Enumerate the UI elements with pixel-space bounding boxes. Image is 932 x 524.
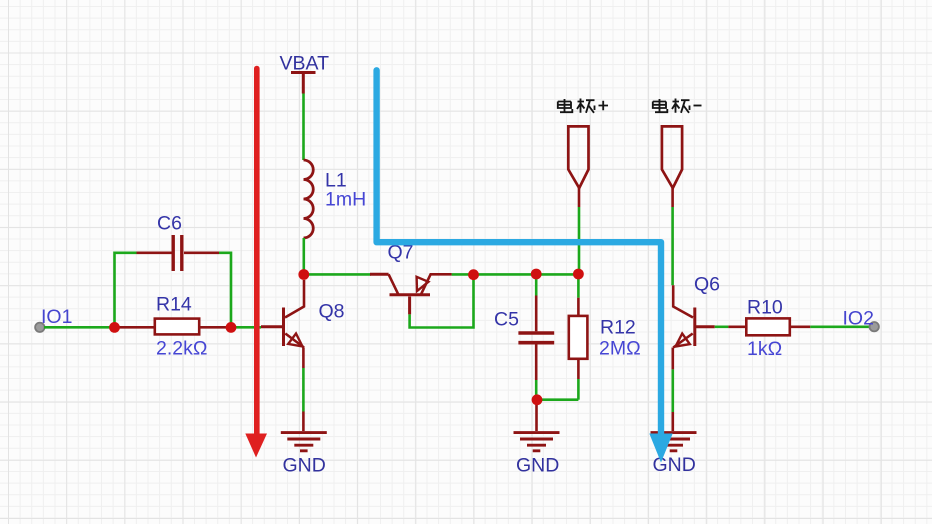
transistor Q7 bbox=[370, 242, 452, 315]
connector 电极- bbox=[662, 126, 682, 207]
junction dot E bbox=[573, 269, 584, 280]
pin IO1 bbox=[35, 306, 72, 332]
wire Q8 emitter to GND bbox=[302, 348, 305, 369]
wire bottom link junction D to R12 bbox=[537, 398, 578, 401]
wire R10 to IO2 bbox=[810, 325, 870, 328]
wire IO1 to junction A bbox=[44, 326, 115, 329]
ground GND right bbox=[651, 433, 697, 476]
svg-text:R12: R12 bbox=[600, 317, 636, 339]
label 电极+ bbox=[558, 99, 608, 113]
junction dot C5 top bbox=[531, 269, 542, 280]
annotation blue arrow bbox=[377, 70, 673, 462]
svg-text:R10: R10 bbox=[747, 297, 783, 319]
label 电极- bbox=[653, 99, 702, 113]
svg-text:GND: GND bbox=[516, 455, 559, 477]
wire 电极+ down to junction E bbox=[578, 207, 581, 274]
svg-text:R14: R14 bbox=[156, 294, 192, 316]
wire Q6 emitter to GND bbox=[671, 348, 674, 370]
resistor R10 bbox=[728, 297, 810, 361]
svg-text:2MΩ: 2MΩ bbox=[599, 338, 641, 360]
transistor Q6 bbox=[673, 274, 720, 348]
wire Q6 base to R10 bbox=[715, 325, 729, 328]
wire junction B to Q8 base bbox=[231, 326, 261, 329]
junction dot collector node bbox=[298, 269, 309, 280]
ground GND mid bbox=[514, 433, 560, 477]
wire VBAT to L1 bbox=[302, 94, 305, 161]
svg-text:IO2: IO2 bbox=[843, 308, 874, 330]
junction dot A bbox=[109, 322, 120, 333]
svg-text:GND: GND bbox=[283, 455, 326, 477]
svg-text:Q6: Q6 bbox=[694, 274, 720, 296]
wire L1 to collector node bbox=[302, 238, 305, 274]
inductor L1 bbox=[304, 160, 367, 238]
wire Q7 base loop to junction C bbox=[410, 275, 474, 328]
ground GND under Q8 bbox=[281, 433, 327, 477]
svg-text:2.2kΩ: 2.2kΩ bbox=[156, 338, 207, 360]
svg-text:C5: C5 bbox=[494, 308, 519, 330]
junction dot B bbox=[226, 322, 237, 333]
wire junction A up left side of C6 bbox=[115, 253, 137, 327]
svg-text:1kΩ: 1kΩ bbox=[747, 338, 782, 360]
wire Q7 right to R12 node bbox=[452, 273, 579, 276]
power flag VBAT bbox=[280, 53, 330, 94]
resistor R12 bbox=[569, 274, 641, 400]
wire junction D to GND mid bbox=[535, 402, 538, 431]
svg-text:IO1: IO1 bbox=[41, 306, 72, 328]
svg-text:1mH: 1mH bbox=[325, 189, 366, 211]
svg-text:VBAT: VBAT bbox=[280, 53, 330, 75]
transistor Q8 bbox=[261, 280, 345, 348]
resistor R14 bbox=[116, 294, 230, 360]
pin IO2 bbox=[843, 308, 879, 332]
svg-text:Q8: Q8 bbox=[319, 301, 345, 323]
wire 电极- down to Q6 collector bbox=[671, 207, 674, 285]
junction dot C bbox=[468, 269, 479, 280]
connector 电极+ bbox=[568, 126, 588, 207]
svg-text:C6: C6 bbox=[157, 213, 182, 235]
wire main horizontal node to Q7 bbox=[304, 273, 371, 276]
annotation red arrow bbox=[245, 69, 267, 458]
capacitor C6 bbox=[137, 213, 220, 272]
junction dot D bbox=[532, 394, 543, 405]
capacitor C5 bbox=[494, 274, 554, 396]
wire C6 right down to junction B bbox=[219, 253, 231, 327]
